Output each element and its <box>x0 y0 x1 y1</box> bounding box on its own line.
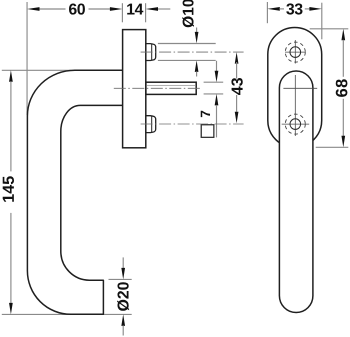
wire: spindle top edge extension <box>204 81 224 83</box>
wire: screw bottom edge extension <box>158 59 216 61</box>
wire: grip end top extension <box>109 278 132 280</box>
wire: extension line 14 right <box>145 3 147 22</box>
wire: extension line 68 top <box>310 28 349 30</box>
dimension diameter 10 (leader, rotated label) <box>158 0 216 76</box>
screw S2 (side view, bottom) <box>146 116 156 133</box>
dimension 60 <box>27 3 122 14</box>
dimension square 7 <box>201 61 223 138</box>
wire: extension line 68 bottom <box>316 146 349 148</box>
dimension 145 <box>3 70 14 314</box>
wire: extension line 33 left <box>266 2 268 23</box>
screw hole H2 crosshair (front, bottom) <box>282 114 310 134</box>
dimension 43 <box>231 52 242 123</box>
dimension 33 <box>267 3 321 14</box>
node: top screw centreline <box>141 51 244 53</box>
wire: screw top edge extension <box>158 43 216 45</box>
node: spindle centreline <box>114 87 201 89</box>
screw hole H1 crosshair (front, top) <box>285 40 306 64</box>
wire: extension line bottom shared 145 / diam20 <box>2 313 132 315</box>
screw S1 (side view, top) <box>146 44 156 61</box>
dimension 68 <box>336 29 348 148</box>
wire: extension line of 60 dim (vertical, left) <box>26 2 28 115</box>
square symbol of dim 7 (redrawn over centreline) <box>201 125 214 138</box>
wire: spindle bottom edge extension <box>204 93 224 95</box>
wire: extension line 14 left <box>121 3 123 22</box>
backplate (side view) <box>123 30 146 148</box>
dimension 14 <box>127 4 170 15</box>
wire: extension line 33 right <box>321 3 323 40</box>
wire: extension line 145 top (horizontal) <box>2 69 71 71</box>
node: bottom screw centreline <box>141 123 244 125</box>
rose / backplate (front view, stadium) <box>268 27 322 147</box>
node: spindle axis crosshair (front) <box>283 75 317 136</box>
handle outline (side view grip) <box>27 70 122 314</box>
square symbol <box>201 125 214 138</box>
spindle (square 7 bar, side view) <box>146 82 196 94</box>
handle grip (front view, stadium) <box>279 71 313 312</box>
dimension diameter 20 <box>109 257 132 335</box>
